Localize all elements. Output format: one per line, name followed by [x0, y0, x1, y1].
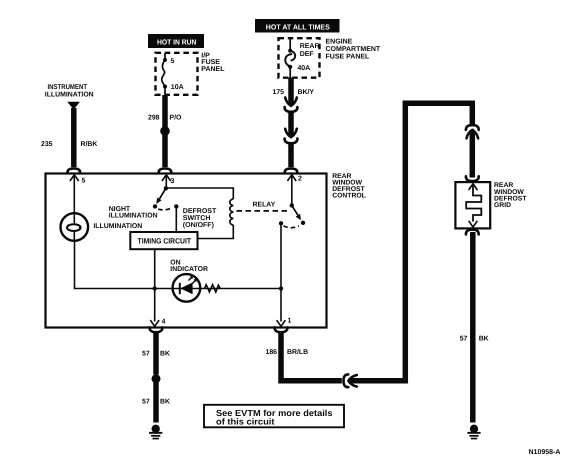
svg-text:4: 4 [162, 319, 166, 326]
svg-text:DEF: DEF [300, 51, 315, 58]
svg-text:ILLUMINATION: ILLUMINATION [109, 213, 158, 220]
svg-text:PANEL: PANEL [201, 66, 225, 73]
svg-text:186: 186 [266, 349, 278, 356]
svg-text:(ON/OFF): (ON/OFF) [183, 221, 214, 229]
svg-text:2: 2 [298, 176, 302, 183]
svg-text:INSTRUMENT: INSTRUMENT [48, 84, 88, 91]
svg-text:40A: 40A [297, 65, 310, 72]
svg-text:RELAY: RELAY [253, 201, 276, 208]
svg-text:P/O: P/O [170, 114, 183, 121]
svg-text:HOT AT ALL TIMES: HOT AT ALL TIMES [266, 22, 330, 31]
svg-text:BK: BK [160, 351, 170, 358]
svg-text:REAR: REAR [300, 43, 320, 50]
svg-text:BK: BK [160, 398, 170, 405]
svg-text:5: 5 [82, 178, 86, 185]
svg-text:FUSE PANEL: FUSE PANEL [326, 54, 371, 61]
svg-text:R/BK: R/BK [81, 141, 98, 148]
svg-text:BR/LB: BR/LB [287, 349, 308, 356]
svg-text:10A: 10A [171, 84, 184, 91]
svg-text:ILLUMINATION: ILLUMINATION [93, 223, 142, 230]
svg-text:DEFROST: DEFROST [183, 208, 217, 215]
svg-text:BK/Y: BK/Y [298, 89, 315, 96]
svg-text:N10958-A: N10958-A [529, 449, 561, 456]
svg-text:3: 3 [171, 178, 175, 185]
svg-text:BK: BK [479, 336, 489, 343]
svg-text:CONTROL: CONTROL [332, 193, 366, 200]
svg-text:57: 57 [142, 351, 150, 358]
svg-text:1: 1 [288, 318, 292, 325]
svg-text:HOT IN RUN: HOT IN RUN [157, 37, 197, 46]
svg-text:57: 57 [142, 398, 150, 405]
svg-text:INDICATOR: INDICATOR [170, 266, 208, 273]
svg-text:GRID: GRID [494, 202, 511, 209]
svg-text:175: 175 [273, 89, 285, 96]
svg-text:of this circuit: of this circuit [216, 416, 275, 426]
svg-text:298: 298 [148, 114, 160, 121]
svg-text:I/P: I/P [201, 51, 210, 59]
svg-text:5: 5 [171, 58, 175, 65]
svg-text:ILLUMINATION: ILLUMINATION [45, 91, 94, 98]
svg-text:TIMING CIRCUIT: TIMING CIRCUIT [138, 237, 192, 246]
svg-text:SWITCH: SWITCH [183, 215, 211, 222]
svg-text:235: 235 [41, 141, 53, 148]
svg-text:57: 57 [460, 336, 468, 343]
svg-text:COMPARTMENT: COMPARTMENT [326, 46, 381, 53]
svg-text:ENGINE: ENGINE [326, 39, 353, 46]
